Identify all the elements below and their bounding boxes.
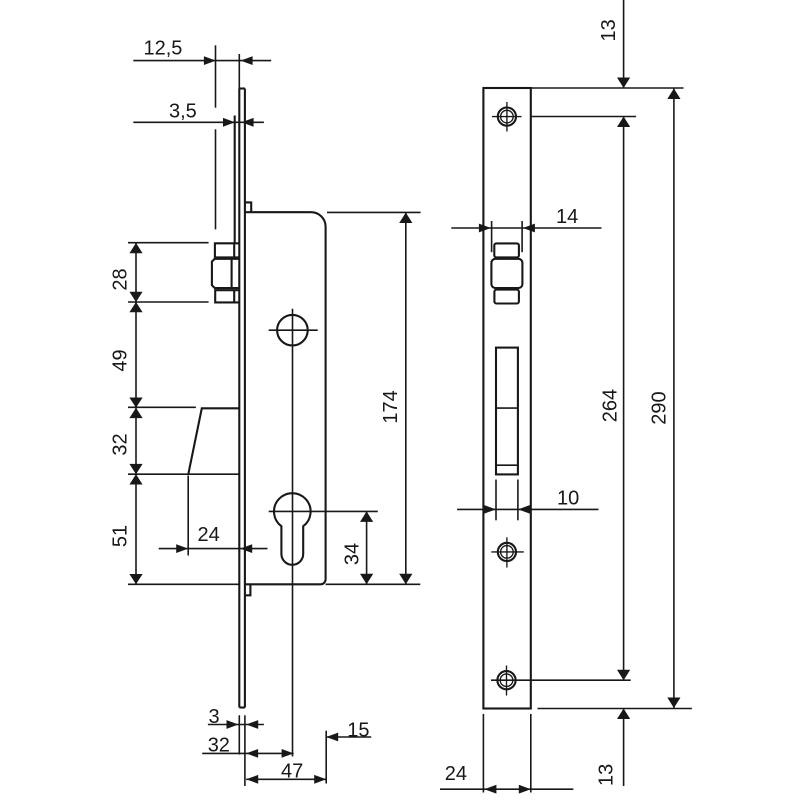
center slot	[496, 348, 518, 475]
extension lines for 10	[495, 480, 497, 521]
bottom screw hole inner	[500, 674, 513, 687]
svg-text:24: 24	[445, 763, 467, 785]
latch bolt middle section	[212, 259, 239, 288]
svg-text:34: 34	[341, 543, 363, 565]
follower cross horizontal centerline	[269, 329, 318, 331]
svg-text:49: 49	[110, 349, 132, 371]
faceplate back edge line	[244, 89, 246, 708]
extension line for 15/47 right	[325, 731, 327, 784]
faceplate bottom edge	[239, 706, 245, 708]
latch bolt bottom section inner edge	[233, 290, 235, 302]
svg-text:264: 264	[599, 389, 621, 422]
chain arrow at 243	[129, 243, 142, 253]
svg-text:174: 174	[380, 390, 402, 423]
arrow up at screw center	[617, 117, 630, 128]
bottom screw hole outer	[497, 671, 515, 689]
latch bolt top section inner edge	[233, 243, 235, 257]
bottom screw cross vertical	[506, 666, 508, 696]
middle screw cross	[491, 551, 524, 553]
13/264 dimension line middle segment	[623, 117, 625, 681]
latch bolt bottom section	[215, 290, 239, 302]
extension line below plate front	[238, 715, 240, 754]
left dimension chain line	[135, 243, 137, 584]
middle screw hole inner	[501, 546, 514, 559]
extension line for 12,5 left	[215, 45, 217, 107]
extension line top screw center	[531, 116, 636, 118]
top screw cross	[492, 116, 522, 118]
13/264 dimension line bottom segment	[623, 709, 625, 787]
lock body top tab	[245, 202, 251, 212]
extension line plate top right	[531, 87, 684, 89]
lock body bottom tab	[245, 584, 251, 595]
extension line plate bottom right	[538, 708, 692, 710]
top screw hole inner	[501, 110, 514, 123]
arrow up at plate bottom	[617, 709, 630, 720]
latch hole right edge	[521, 221, 523, 252]
svg-text:13: 13	[596, 764, 618, 786]
latch bolt middle section inner edge	[231, 259, 233, 288]
faceplate top edge	[239, 87, 245, 89]
front strip above latch	[234, 116, 236, 244]
slot divider upper	[496, 407, 518, 409]
chain extension line at latch bottom	[128, 301, 209, 303]
latch bolt top section	[215, 243, 239, 257]
latch bottom block	[494, 290, 519, 304]
svg-text:28: 28	[110, 268, 132, 290]
extension line for 24	[187, 476, 189, 556]
chain bowtie arrows at 302	[129, 292, 142, 313]
faceplate front edge line	[238, 89, 240, 708]
latch top block	[494, 243, 519, 257]
vertical centerline through follower and cylinder	[292, 309, 294, 757]
chain extension line at latch top	[128, 242, 209, 244]
svg-text:10: 10	[557, 487, 579, 509]
chain bowtie arrows at 474.2	[129, 464, 142, 485]
chain bowtie arrows at 407.8	[129, 398, 142, 419]
middle screw hole outer	[498, 543, 516, 561]
chain arrow at 581.8	[129, 574, 142, 584]
latch middle block	[491, 259, 522, 288]
svg-text:51: 51	[110, 525, 132, 547]
chain extension line at slant top	[128, 406, 196, 408]
body bottom extension line right	[326, 583, 421, 585]
13/264 dimension line top segment	[623, 0, 625, 88]
slanted component behind plate	[188, 408, 239, 474]
arrow down at plate top	[617, 78, 630, 89]
extension line for 12,5 right	[238, 54, 240, 89]
euro profile cylinder hole	[274, 493, 311, 565]
extension line for 174 top	[327, 211, 421, 213]
svg-text:12,5: 12,5	[144, 38, 183, 60]
faceplate rectangle	[483, 88, 530, 709]
bottom screw cross horizontal extended to 264 line	[491, 679, 631, 681]
cylinder horizontal centerline	[269, 510, 378, 512]
svg-text:14: 14	[556, 206, 578, 228]
lock body outline	[245, 212, 326, 584]
svg-text:24: 24	[198, 524, 220, 546]
chain extension line at slant bottom	[128, 473, 239, 475]
svg-text:32: 32	[110, 433, 132, 455]
svg-text:3,5: 3,5	[169, 101, 197, 123]
svg-text:15: 15	[347, 720, 369, 742]
extension line below plate back	[244, 715, 246, 786]
svg-text:13: 13	[598, 19, 620, 41]
top screw hole outer	[498, 108, 516, 126]
arrow down at bottom screw center	[617, 670, 630, 681]
latch hole left edge	[491, 221, 493, 252]
slot divider lower	[496, 464, 518, 466]
extension lines for bottom 24	[482, 714, 484, 793]
svg-text:290: 290	[648, 391, 670, 424]
handle follower hole	[277, 315, 308, 346]
body bottom extension line left	[128, 583, 239, 585]
